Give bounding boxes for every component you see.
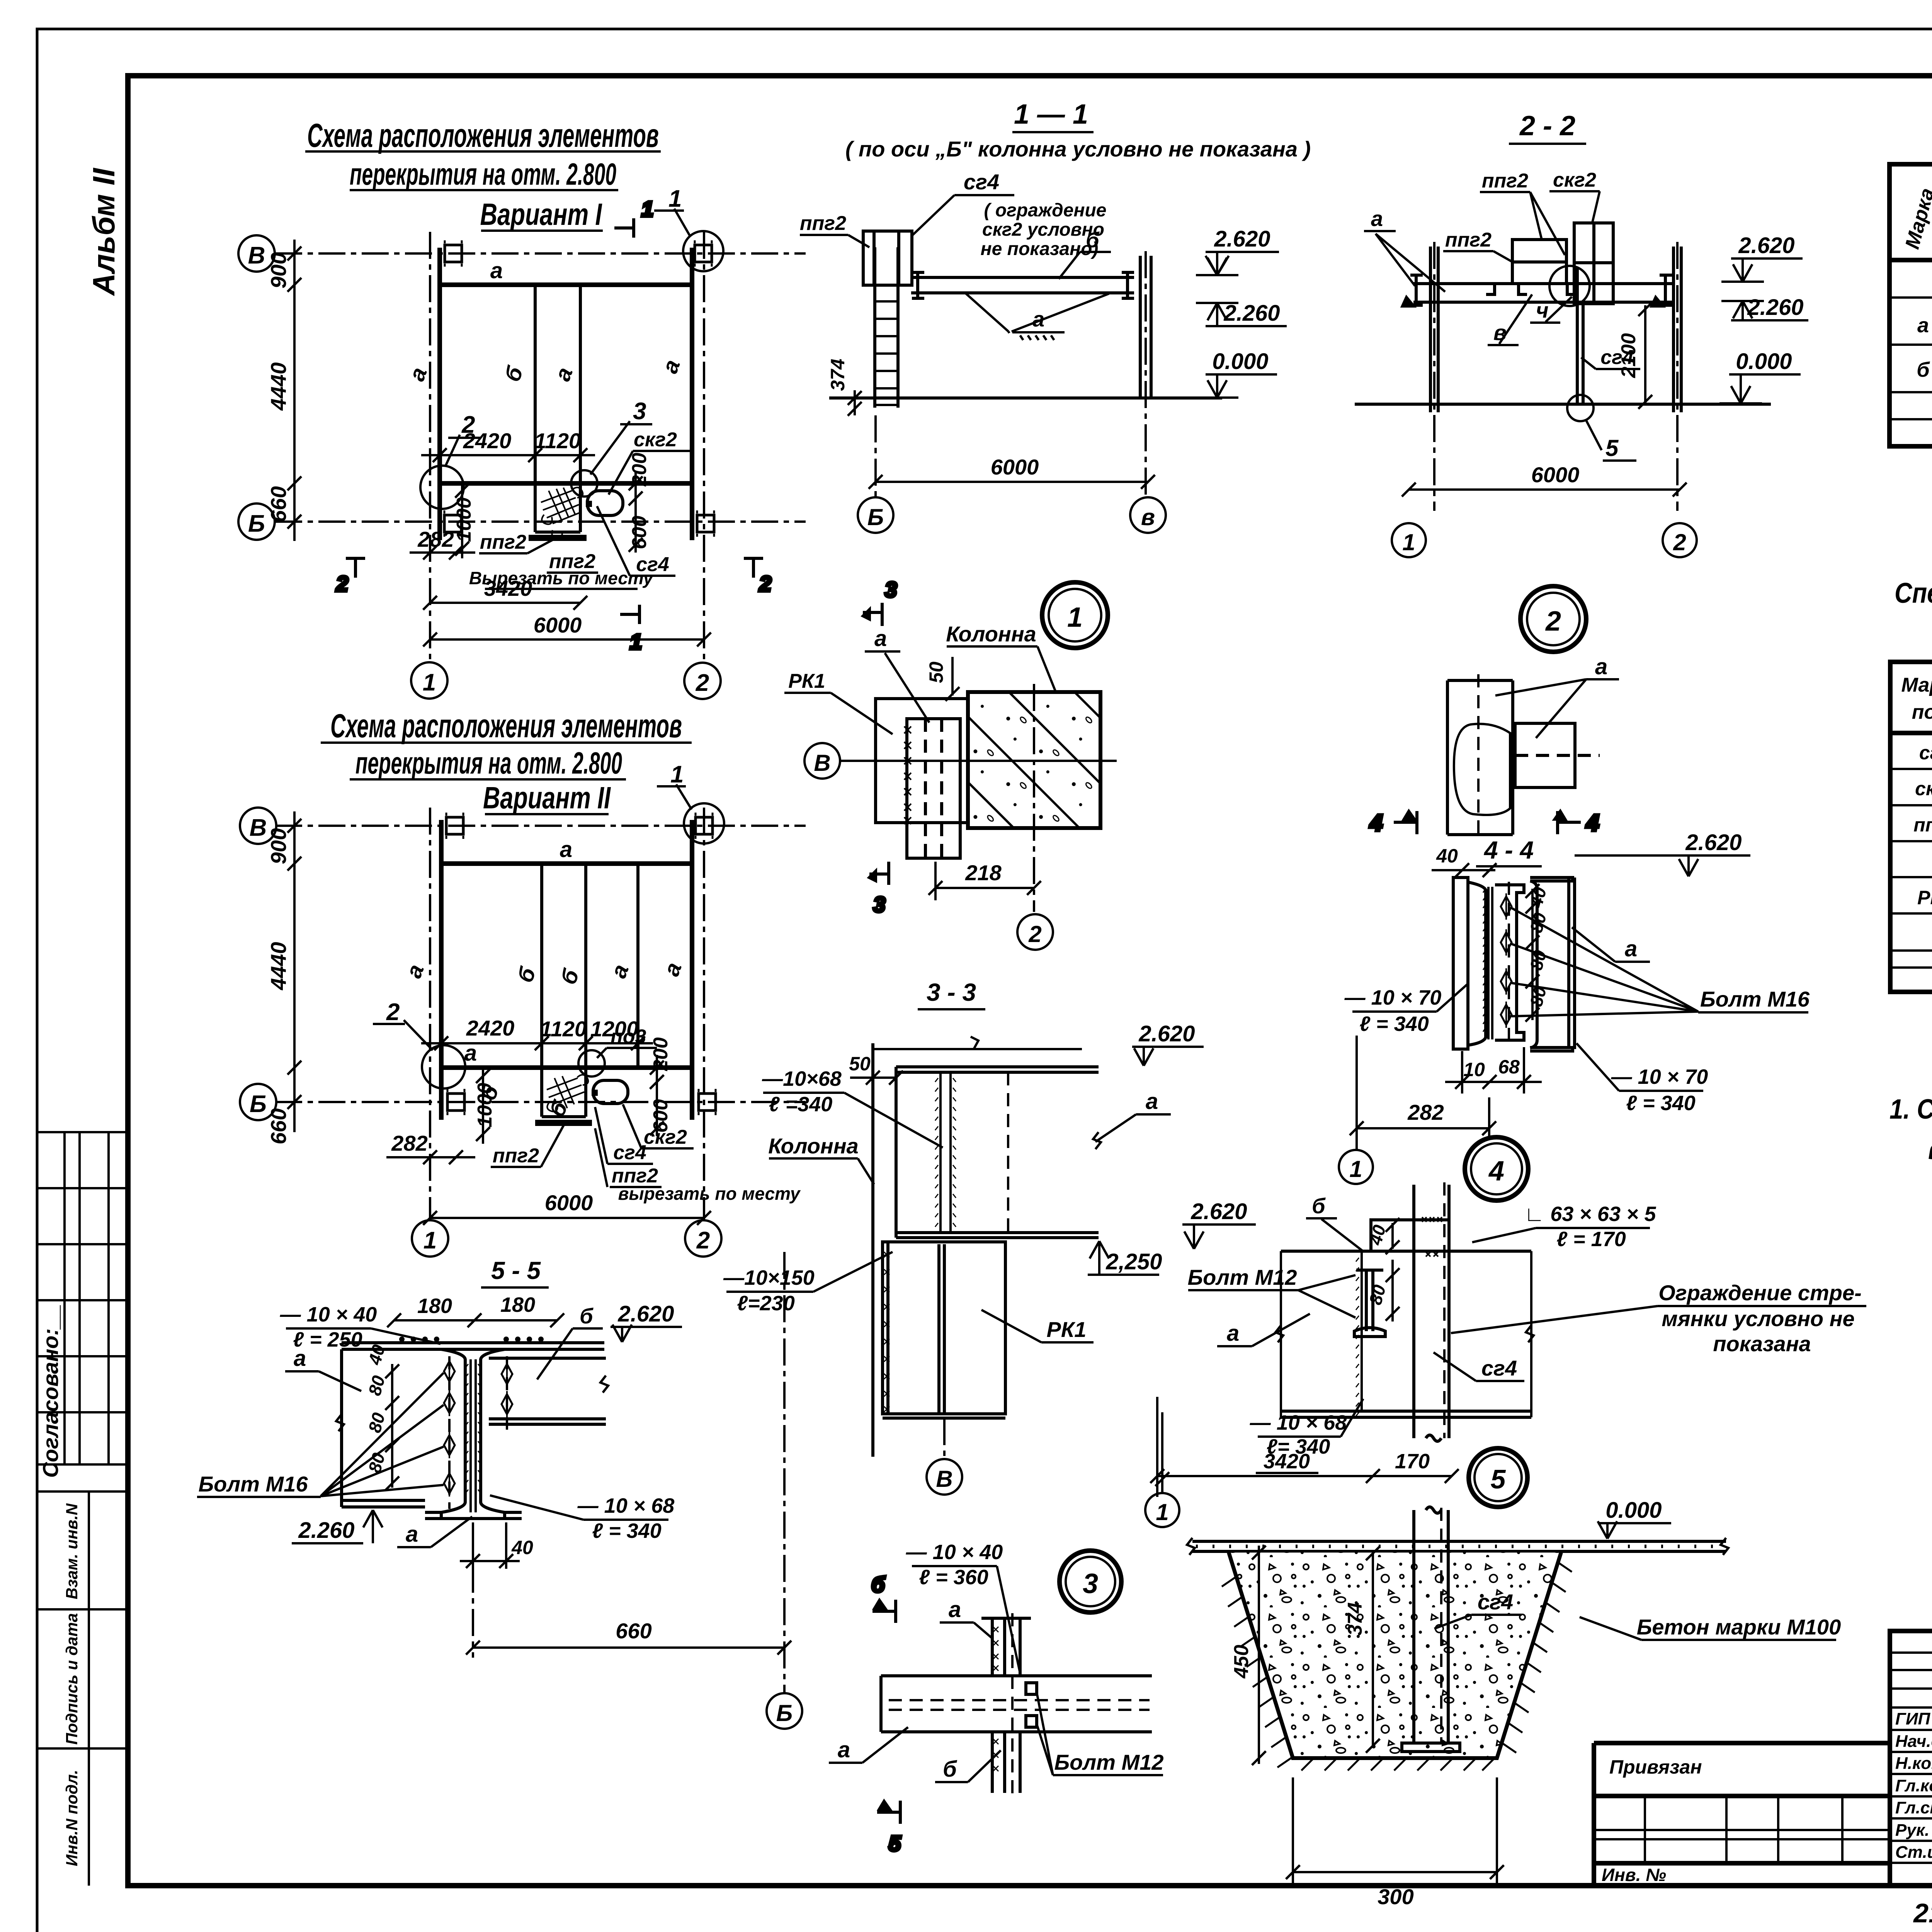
svg-text:1: 1 [1067, 602, 1083, 633]
dim 660 55 [466, 1641, 791, 1655]
ch label s22 [1530, 297, 1572, 323]
dim 282 44 [1350, 1036, 1496, 1140]
svg-text:Согласовано:__: Согласовано:__ [38, 1304, 63, 1478]
ladder rungs [875, 301, 898, 405]
svg-text:2: 2 [1673, 529, 1686, 555]
svg-text:1000: 1000 [453, 497, 475, 542]
svg-text:2100: 2100 [1617, 333, 1640, 378]
svg-text:сг4: сг4 [964, 170, 999, 194]
node 1 callout circle top right [683, 231, 723, 271]
column squares plan II [446, 813, 463, 839]
svg-text:Колонна: Колонна [768, 1134, 859, 1158]
beam d3 [881, 1676, 1152, 1732]
privyazan block [1594, 1743, 1890, 1886]
level 2.620 s11 [1196, 226, 1279, 275]
svg-text:вырезать по месту: вырезать по месту [618, 1184, 801, 1204]
svg-text:2: 2 [1545, 606, 1561, 637]
dim 1000 vertical II [476, 1068, 490, 1144]
dim 1000 vertical [455, 483, 469, 558]
svg-text:ℓ =340: ℓ =340 [769, 1093, 833, 1116]
svg-text:4440: 4440 [266, 362, 291, 411]
channel marks on beam [1486, 284, 1576, 294]
svg-text:Вариант I: Вариант I [480, 197, 602, 231]
a label 33 [1093, 1089, 1171, 1149]
beam a right vertical [690, 248, 694, 540]
right column 1-1 [1140, 256, 1151, 398]
sg4 label n5 [1434, 1352, 1524, 1381]
beam a top horizontal [440, 282, 692, 287]
svg-text:Рук. гр.: Рук. гр. [1895, 1821, 1932, 1840]
svg-text:ℓ = 340: ℓ = 340 [592, 1519, 662, 1543]
node po3 callout label II [597, 1026, 657, 1058]
svg-text:5: 5 [1605, 435, 1619, 461]
svg-text:а: а [294, 1346, 306, 1371]
axis B continuation line [783, 1252, 786, 1692]
ppg2 label left II [491, 1124, 564, 1167]
column line 33 [871, 1043, 874, 1457]
a label n5 [1217, 1314, 1310, 1346]
svg-text:282: 282 [1407, 1100, 1444, 1124]
beam a left vertical II [439, 820, 444, 1120]
svg-text:— 10 × 40: — 10 × 40 [906, 1541, 1003, 1564]
svg-text:ℓ = 340: ℓ = 340 [1359, 1012, 1429, 1036]
svg-text:( по оси „Б" колонна условно н: ( по оси „Б" колонна условно не показана… [845, 137, 1311, 161]
a label 55 bottom [397, 1517, 472, 1547]
svg-text:а: а [560, 837, 572, 862]
svg-text:180: 180 [500, 1293, 535, 1316]
dim 40 n5 [1386, 1218, 1400, 1254]
skg2 label [1549, 169, 1600, 224]
svg-text:Болт М16: Болт М16 [1700, 987, 1810, 1011]
svg-text:а: а [490, 258, 503, 283]
vedomost grid [1889, 164, 1932, 446]
axis B circle II [240, 808, 276, 844]
svg-text:180: 180 [417, 1294, 452, 1318]
level 2.260 s11 [1206, 301, 1287, 326]
svg-text:скг2: скг2 [1915, 778, 1932, 799]
left margin stamp grid [37, 1132, 128, 1886]
beam b strips verticals II [540, 864, 543, 1117]
axis B line [275, 252, 806, 255]
plan I title [307, 117, 659, 231]
dim 80 n5 [1386, 1260, 1400, 1321]
beam top n5 [1281, 1250, 1531, 1253]
svg-text:В: В [936, 1466, 952, 1492]
node po3 callout circle II [578, 1050, 605, 1077]
axis 2 circle II [685, 1220, 721, 1257]
sg4 label [912, 170, 1014, 236]
svg-text:2.260: 2.260 [298, 1518, 354, 1543]
svg-text:ппг2: ппг2 [800, 212, 846, 235]
node 2 callout label [445, 412, 481, 467]
plan II title [330, 707, 682, 815]
plate label left 44 [1344, 986, 1442, 1036]
axis B circle 55 [767, 1693, 802, 1729]
svg-text:0.000: 0.000 [1736, 349, 1792, 374]
svg-text:б: б [1086, 228, 1100, 252]
sg4 label fd [1434, 1590, 1522, 1629]
node 1 circle [1042, 582, 1108, 648]
I column section 55 [425, 1349, 522, 1519]
beam b section 1-1 [911, 277, 1134, 293]
section 5 mark d3 [877, 1801, 901, 1855]
bolt M16 label 55 [197, 1373, 444, 1497]
node2 beam right [1515, 723, 1600, 787]
svg-text:в соответствии с ГОСТ 5264-: в соответствии с ГОСТ 5264-80. [1928, 1134, 1932, 1165]
dims 180 180 55 [387, 1313, 564, 1327]
svg-text:— 10 × 70: — 10 × 70 [1611, 1065, 1708, 1088]
floor slab fd [1192, 1541, 1726, 1551]
axis B circle [238, 235, 275, 272]
b label bottom d3 [935, 1750, 1001, 1782]
a label d3 [940, 1597, 992, 1638]
center plate d3 [1026, 1683, 1037, 1727]
soil hatch fd [1222, 1562, 1572, 1770]
svg-text:поз.: поз. [1912, 701, 1932, 723]
svg-text:б: б [1312, 1194, 1326, 1218]
svg-text:1: 1 [1402, 529, 1415, 555]
skg2 fence box s22 [1574, 223, 1613, 304]
b label 55 [537, 1304, 603, 1379]
weld dots strip 55 [399, 1337, 544, 1342]
dim 40 44 [1432, 863, 1497, 877]
svg-text:б: б [871, 1572, 885, 1597]
svg-text:Болт М16: Болт М16 [199, 1472, 308, 1496]
right beam b 55 [489, 1358, 606, 1424]
ppg2 label left [479, 531, 556, 553]
signature roles and names [1895, 1709, 1932, 1862]
svg-text:∟ 63 × 63 × 5: ∟ 63 × 63 × 5 [1524, 1202, 1656, 1226]
svg-text:скг2: скг2 [634, 429, 677, 451]
plate label right 44 [1611, 1065, 1708, 1115]
svg-text:а: а [1146, 1089, 1158, 1114]
node 2 callout circle II [422, 1045, 465, 1088]
svg-text:1: 1 [630, 629, 642, 654]
beam a bottom horizontal II [441, 1065, 692, 1070]
weld x marks on RK1 [904, 726, 911, 824]
beam right edge n5 [1530, 1251, 1532, 1417]
bolt M12 label n5 [1188, 1265, 1355, 1318]
svg-text:Привязан: Привязан [1609, 1756, 1702, 1778]
svg-text:4 - 4: 4 - 4 [1483, 836, 1534, 864]
svg-text:1120: 1120 [540, 1017, 587, 1041]
title block outline [1890, 1631, 1932, 1886]
skg2 fence rounded [587, 491, 623, 515]
svg-text:2420: 2420 [463, 429, 512, 453]
beam left edge n5 [1280, 1251, 1282, 1417]
svg-text:Колонна: Колонна [946, 622, 1036, 646]
axis B(lower) line II [275, 1101, 806, 1103]
svg-text:— 10 × 40: — 10 × 40 [280, 1303, 377, 1326]
svg-text:скг2: скг2 [644, 1126, 687, 1148]
dim 218 [929, 862, 1041, 900]
svg-text:ℓ = 170: ℓ = 170 [1556, 1228, 1626, 1251]
dims 40 80 80 80 rot 55 [385, 1364, 399, 1490]
node 3 callout label [590, 398, 652, 474]
a label node1 [865, 626, 929, 723]
svg-text:1: 1 [670, 761, 684, 788]
ppg2 thick mark under strip II [535, 1120, 592, 1126]
pit outline fd [1229, 1553, 1561, 1758]
svg-text:ппг2: ппг2 [493, 1145, 539, 1167]
axis B(lower) circle II [240, 1084, 276, 1120]
svg-text:ℓ = 360: ℓ = 360 [919, 1566, 988, 1589]
dim 6000 [423, 633, 711, 646]
svg-text:ℓ=230: ℓ=230 [737, 1292, 795, 1315]
dim 374 fd [1366, 1546, 1380, 1753]
sg4 column n5 [1414, 1185, 1449, 1441]
RK1 label 33 [981, 1310, 1094, 1342]
node2 column [1447, 680, 1513, 835]
section mark 1 bottom [620, 605, 642, 654]
dim 200/600 vertical right II [650, 1055, 664, 1136]
b label n5 [1306, 1194, 1364, 1252]
axis 2 node1 [1017, 684, 1053, 950]
angle bracket n5 [1371, 1220, 1449, 1251]
node 1 callout circle top right II [684, 803, 724, 844]
node 2 circle [1520, 586, 1586, 652]
dim 200/600 vertical right [629, 471, 643, 553]
svg-text:— 10 × 68: — 10 × 68 [577, 1494, 675, 1517]
hatch of opening II [547, 1075, 588, 1111]
sg4 label s22 [1581, 346, 1640, 369]
axis 1 circle [411, 662, 447, 699]
dim 6000 s11 [869, 415, 1155, 497]
ppg2 label [800, 212, 869, 247]
node 5 circle [1469, 1448, 1527, 1507]
svg-text:5 - 5: 5 - 5 [491, 1257, 541, 1284]
left beam end I s22 [1403, 275, 1423, 306]
axis B(lower) circle [238, 503, 275, 540]
svg-text:В: В [248, 242, 265, 269]
guard note n5 [1658, 1281, 1861, 1356]
svg-text:ппг2: ппг2 [480, 531, 526, 553]
axis dash-dot down from I 55 [472, 1522, 474, 1658]
level 2.620 55 [611, 1301, 682, 1342]
axis circle 1 s22 [1392, 523, 1426, 557]
svg-text:а: а [949, 1597, 961, 1622]
svg-text:2.620: 2.620 [1190, 1199, 1247, 1224]
svg-text:21405-02: 21405-02 [1913, 1898, 1932, 1928]
dim 40 bottom 55 [460, 1522, 520, 1569]
svg-text:282: 282 [391, 1131, 427, 1155]
svg-text:2.620: 2.620 [1138, 1021, 1195, 1046]
plate label -10x68 55 [577, 1494, 675, 1543]
svg-text:б: б [1917, 358, 1930, 381]
svg-text:а: а [1371, 206, 1383, 231]
kolonna label [946, 622, 1059, 699]
axis V node1 [804, 743, 1117, 779]
svg-text:200: 200 [628, 453, 651, 487]
axis 1 line d3 [1145, 1412, 1179, 1527]
beam letter labels plan II [401, 837, 687, 1121]
section b mark d3 [871, 1572, 896, 1623]
svg-text:900: 900 [266, 828, 291, 864]
RK1 box 33 [883, 1242, 1005, 1418]
svg-text:Инв. №: Инв. № [1602, 1865, 1666, 1885]
svg-text:Б: Б [248, 510, 265, 537]
svg-text:Вариант II: Вариант II [483, 781, 611, 815]
svg-text:Альбм II: Альбм II [87, 168, 121, 296]
vedomost row b [1917, 358, 1932, 383]
svg-text:450: 450 [1230, 1645, 1253, 1679]
svg-text:РК1: РК1 [788, 670, 825, 692]
beam flange left 44 [1453, 878, 1486, 1049]
weld teeth n5 [1361, 1251, 1363, 1411]
svg-text:3420: 3420 [1264, 1450, 1310, 1473]
beam a right vertical II [690, 820, 694, 1120]
hatch of opening [541, 487, 583, 539]
axis 2 line [703, 232, 705, 662]
svg-text:600: 600 [628, 516, 651, 549]
svg-text:а: а [838, 1737, 850, 1762]
dashed bolt line left 55 [448, 1356, 451, 1509]
beam letter labels plan I [404, 258, 685, 385]
svg-text:сг4: сг4 [1919, 742, 1932, 764]
dim 3420 [423, 596, 587, 610]
dim 50 33 [850, 1071, 903, 1085]
left column s22 [1430, 247, 1438, 412]
svg-text:374: 374 [1344, 1602, 1366, 1636]
axis circle 2 s22 [1663, 523, 1697, 557]
level 2.260 s22 [1721, 295, 1808, 320]
svg-text:10: 10 [1463, 1059, 1485, 1080]
svg-text:4: 4 [1488, 1156, 1504, 1187]
kolonna label 33 [768, 1134, 874, 1184]
beam b strip verticals [534, 285, 537, 532]
section mark 1 top [614, 197, 653, 238]
column squares plan I [445, 240, 462, 267]
skg2 label II [623, 1104, 694, 1148]
svg-text:сг4: сг4 [1481, 1356, 1517, 1380]
svg-text:перекрытия на отм. 2.800: перекрытия на отм. 2.800 [355, 746, 622, 780]
svg-text:50: 50 [849, 1053, 871, 1075]
svg-text:3: 3 [885, 577, 897, 602]
plate label -10x68 33 [762, 1067, 842, 1116]
ppg2 label 2 [547, 550, 598, 573]
RK1 bracket outline [876, 699, 968, 823]
node 1 callout label II [657, 761, 692, 810]
svg-text:ппг2: ппг2 [1445, 229, 1492, 251]
level 0.000 fd [1598, 1498, 1671, 1539]
skg2 label [609, 429, 692, 495]
ppg2 label a [1480, 170, 1565, 255]
svg-text:3: 3 [1083, 1568, 1098, 1599]
svg-text:а: а [1917, 314, 1929, 337]
vedomost row a [1917, 312, 1932, 337]
post d3 [981, 1618, 1031, 1793]
concrete label fd [1580, 1615, 1841, 1640]
svg-text:Б: Б [250, 1091, 267, 1117]
axis 1 line [429, 232, 431, 662]
axis 1 circle II [412, 1220, 448, 1257]
svg-text:а: а [1227, 1321, 1239, 1346]
svg-text:6000: 6000 [991, 455, 1039, 479]
node 3 circle [1060, 1551, 1121, 1612]
svg-text:68: 68 [1498, 1056, 1520, 1078]
svg-text:1: 1 [423, 1227, 437, 1254]
axis circle V s11 [1130, 497, 1166, 533]
svg-text:Спецификация к схемам распо: Спецификация к схемам расположения элеме… [1895, 577, 1932, 609]
dim 2420 1120 line [421, 448, 595, 462]
svg-text:б: б [580, 1304, 594, 1328]
bolts 44 [1501, 893, 1512, 920]
ground line 1-1 [829, 396, 1222, 400]
svg-text:4: 4 [1586, 810, 1599, 836]
svg-text:( ограждение: ( ограждение [984, 200, 1107, 221]
a label 55 top [285, 1346, 361, 1391]
spec headers [1901, 674, 1932, 723]
svg-text:374: 374 [827, 359, 849, 391]
svg-text:2420: 2420 [466, 1016, 515, 1040]
svg-text:300: 300 [1378, 1884, 1413, 1909]
svg-text:сг4: сг4 [1478, 1590, 1513, 1614]
axis V 33 [927, 1418, 962, 1495]
a label 44 [1572, 927, 1650, 962]
svg-text:Болт М12: Болт М12 [1188, 1265, 1297, 1289]
svg-text:3: 3 [873, 892, 885, 917]
beam s22 [1413, 284, 1673, 302]
axis circle 1 44 [1339, 1140, 1373, 1184]
svg-text:2.620: 2.620 [1685, 830, 1742, 855]
plate label -10x40 d3 [906, 1541, 1003, 1589]
axis 2 line II [703, 808, 705, 1220]
5 label s22 [1586, 420, 1636, 461]
left margin stamp labels [63, 1503, 81, 1866]
ladder rails [873, 247, 876, 408]
svg-text:5: 5 [1491, 1464, 1506, 1494]
svg-text:6000: 6000 [545, 1190, 593, 1215]
rail T profile n5 [1354, 1270, 1385, 1337]
svg-text:Нач.отд.: Нач.отд. [1895, 1732, 1932, 1751]
svg-text:мянки условно не: мянки условно не [1662, 1306, 1854, 1331]
right beam end I s22 [1652, 275, 1672, 306]
svg-text:900: 900 [266, 252, 291, 288]
sg4 rail s22 [1577, 268, 1583, 403]
sg4 label II [595, 1107, 653, 1164]
svg-text:2.260: 2.260 [1223, 301, 1280, 326]
level 2.620 s22 [1721, 233, 1803, 282]
level 2.620 33 [1132, 1021, 1204, 1066]
svg-text:6000: 6000 [1531, 463, 1580, 487]
svg-text:Б: Б [867, 504, 884, 530]
beam bottom n5 [1281, 1411, 1531, 1417]
svg-text:Схема расположения элементов: Схема расположения элементов [330, 707, 682, 745]
section 1-1 title [845, 99, 1311, 161]
dim 6000 s22 [1402, 483, 1687, 497]
svg-text:Болт М12: Болт М12 [1054, 1750, 1164, 1774]
ladder platform fence box [863, 231, 912, 285]
channel bracket 44 [1495, 885, 1524, 1040]
svg-text:2 - 2: 2 - 2 [1519, 111, 1575, 141]
svg-text:а: а [464, 1041, 477, 1066]
right plate 44 [1530, 878, 1575, 1051]
svg-text:2: 2 [386, 999, 400, 1026]
svg-text:Н.контр.: Н.контр. [1895, 1754, 1932, 1773]
node 2 callout circle [420, 466, 464, 509]
svg-text:В: В [814, 750, 830, 776]
svg-text:ппг2: ппг2 [1482, 170, 1528, 192]
svg-text:Взам. инв.N: Взам. инв.N [63, 1503, 81, 1599]
dim 2420 1120 1200 line II [421, 1036, 653, 1050]
ground line s22 [1355, 403, 1771, 406]
concrete column hatched [968, 692, 1100, 828]
plate label -10x150 33 [723, 1266, 815, 1315]
skg2 note [981, 200, 1107, 259]
svg-text:ч: ч [1536, 298, 1549, 322]
svg-text:1: 1 [668, 185, 682, 212]
web weld teeth 55 [465, 1364, 481, 1493]
